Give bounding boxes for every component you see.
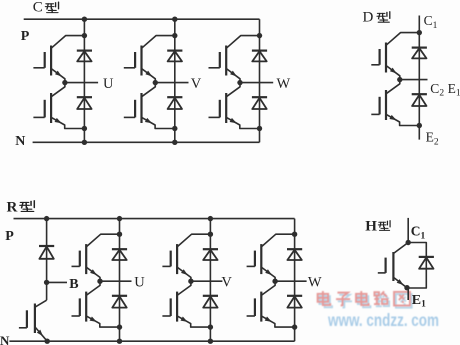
diode D lower freewheel R-type leg U [112, 296, 127, 308]
node B junction [44, 280, 49, 285]
diode D H-type freewheel [419, 257, 434, 269]
junction C-type leg V emitter node [172, 126, 177, 131]
svg-text:C: C [33, 0, 43, 15]
svg-text:U: U [134, 275, 145, 291]
junction C-type leg V top rail [172, 17, 177, 22]
wire R-type N rail [9, 340, 294, 342]
junction C-type leg V collector node [172, 33, 177, 38]
junction H-type emitter node [404, 285, 409, 290]
node W output junction [237, 80, 242, 85]
transistor IGBT upper D-type [371, 33, 419, 80]
diode D upper freewheel R-type leg W [287, 249, 302, 260]
svg-text:B: B [69, 277, 78, 292]
svg-text:R: R [7, 200, 18, 216]
junction C-type leg U top rail [82, 17, 87, 22]
section label H glyph 型 [378, 221, 390, 231]
junction C-type leg V bottom rail [172, 140, 177, 145]
wire C-type leg U vertical [83, 19, 85, 142]
junction brake branch top rail [44, 216, 49, 221]
svg-text:N: N [0, 333, 10, 345]
diode D lower freewheel C-type leg V [167, 97, 182, 109]
transistor IGBT lower R-type leg W [247, 281, 295, 327]
junction brake emitter on N rail [45, 339, 50, 344]
transistor IGBT lower C-type leg U [33, 83, 84, 129]
diode D lower freewheel R-type leg W [287, 296, 302, 308]
wire V output stub [155, 82, 188, 84]
diode D upper freewheel R-type leg V [203, 249, 218, 260]
diode D brake branch [39, 246, 54, 259]
transistor IGBT upper C-type leg V [124, 36, 175, 83]
junction R-type leg V emitter node [208, 324, 213, 329]
junction R-type leg V bottom rail [208, 339, 213, 344]
wire W output stub [275, 280, 307, 282]
svg-text:V: V [191, 76, 202, 92]
junction R-type leg V collector node [208, 232, 213, 237]
section label C glyph 型 [45, 2, 58, 13]
svg-text:U: U [103, 76, 114, 92]
junction R-type leg U emitter node [117, 324, 122, 329]
wire U output stub [100, 280, 132, 282]
transistor IGBT lower R-type leg V [162, 281, 210, 327]
junction C-type leg W collector node [257, 33, 262, 38]
wire D-type midpoint stub [400, 79, 428, 81]
wire C-type P rail [24, 18, 260, 20]
svg-text:W: W [277, 76, 291, 92]
junction C-type leg U collector node [82, 33, 87, 38]
transistor IGBT lower D-type [371, 80, 419, 126]
node V output junction [153, 80, 158, 85]
transistor IGBT upper R-type leg W [247, 234, 295, 281]
junction C-type leg W emitter node [257, 126, 262, 131]
svg-text:www. cndzz. com: www. cndzz. com [327, 310, 439, 330]
watermark red text 电子电路图 with blue shadow [318, 291, 412, 308]
node V output junction [188, 279, 193, 284]
svg-text:W: W [308, 275, 322, 291]
diode D lower freewheel D-type [412, 94, 427, 106]
wire R-type leg V vertical [209, 219, 211, 342]
node W output junction [272, 279, 277, 284]
transistor IGBT upper C-type leg W [209, 36, 260, 83]
wire U output stub [65, 82, 98, 84]
wire node B stub [47, 281, 67, 283]
svg-text:P: P [21, 29, 30, 44]
svg-text:H: H [365, 219, 377, 235]
junction C-type leg U bottom rail [82, 140, 87, 145]
wire C-type leg V vertical [174, 19, 176, 142]
wire R-type brake branch vertical [46, 219, 48, 301]
wire R-type P rail [14, 218, 295, 220]
transistor IGBT upper C-type leg U [33, 36, 84, 83]
junction R-type leg W collector node [292, 232, 297, 237]
junction H-type collector node [406, 240, 411, 245]
svg-text:P: P [5, 229, 14, 244]
node U output junction [62, 80, 67, 85]
wire D-type vertical C1-E2 [418, 16, 420, 140]
wire R-type leg W vertical [294, 219, 296, 342]
junction R-type leg U top rail [117, 216, 122, 221]
wire W output stub [240, 82, 273, 84]
junction R-type leg V top rail [208, 216, 213, 221]
transistor IGBT H-type [378, 243, 408, 288]
node D-type midpoint junction [397, 77, 402, 82]
svg-text:N: N [15, 134, 25, 149]
wire H-type diode loop [407, 243, 426, 289]
svg-text:V: V [221, 275, 232, 291]
section label D glyph 型 [377, 12, 390, 23]
junction R-type leg W emitter node [292, 324, 297, 329]
junction C-type leg U emitter node [82, 126, 87, 131]
junction D-type emitter node [417, 123, 422, 128]
transistor IGBT upper R-type leg V [162, 234, 210, 281]
diode D lower freewheel C-type leg W [252, 97, 267, 109]
junction R-type leg U bottom rail [117, 339, 122, 344]
transistor IGBT lower R-type leg U [72, 281, 120, 327]
diode D upper freewheel R-type leg U [112, 249, 127, 260]
transistor IGBT upper R-type leg U [72, 234, 120, 281]
transistor IGBT lower C-type leg V [124, 83, 175, 129]
junction R-type leg U collector node [117, 232, 122, 237]
junction D-type collector node [417, 30, 422, 35]
diode D upper freewheel D-type [412, 48, 427, 59]
diode D upper freewheel C-type leg U [77, 51, 92, 62]
node U output junction [97, 279, 102, 284]
wire C-type N rail [33, 141, 260, 143]
transistor IGBT lower C-type leg W [209, 83, 260, 129]
diode D upper freewheel C-type leg V [167, 51, 182, 62]
wire H-type vertical stub [407, 218, 409, 243]
diode D lower freewheel R-type leg V [203, 296, 218, 308]
wire R-type leg U vertical [119, 219, 121, 342]
diode D lower freewheel C-type leg U [77, 97, 92, 109]
section label R glyph 型 [20, 201, 34, 212]
transistor IGBT brake chopper [19, 300, 47, 341]
wire V output stub [191, 280, 223, 282]
wire C-type leg W vertical [259, 19, 261, 142]
svg-text:D: D [363, 10, 374, 26]
diode D upper freewheel C-type leg W [252, 51, 267, 62]
